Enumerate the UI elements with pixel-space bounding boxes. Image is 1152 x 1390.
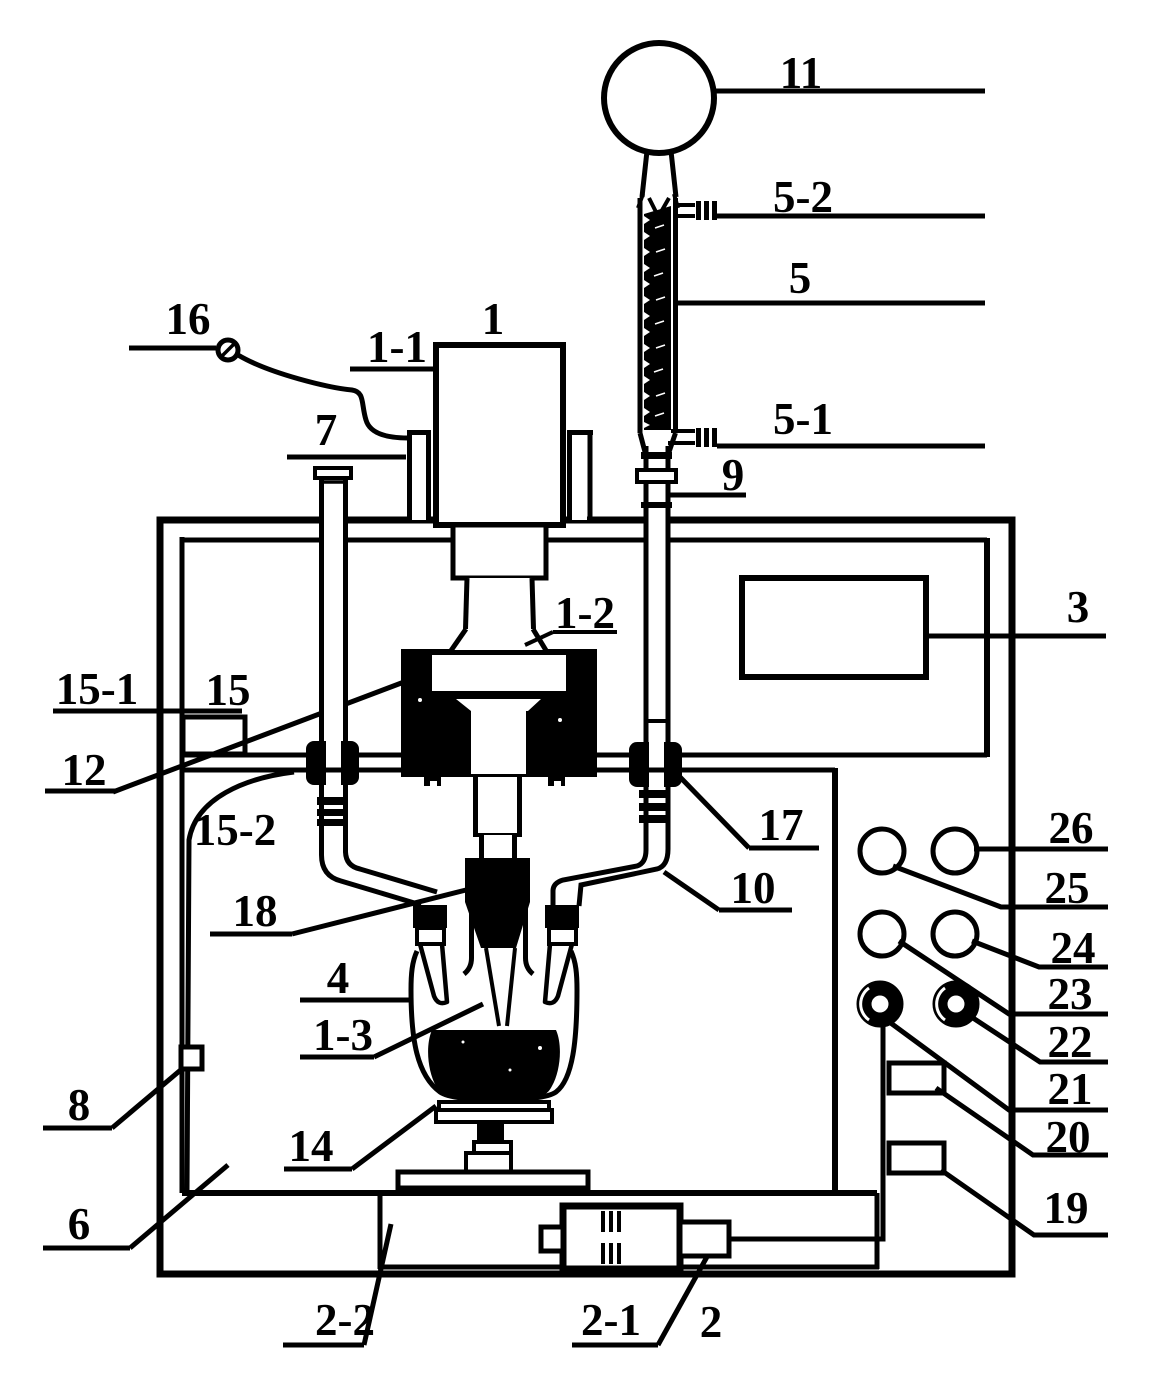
svg-text:4: 4 [327,953,350,1003]
svg-text:15-1: 15-1 [56,664,139,714]
condenser inner vapor funnel [649,198,656,212]
tube 7 left wall [322,477,422,905]
jack base plate [398,1172,588,1188]
button 23 (panel circle row B left) [860,912,904,956]
liquid speckles [538,1046,542,1050]
display compartment top edge [182,538,987,543]
pointer diagonal label 1-2 [525,632,553,645]
pointer diagonal label 2 to motor connector [658,1237,718,1345]
drive motor 2-1 body [563,1206,680,1269]
svg-text:5-1: 5-1 [773,394,833,444]
display unit 3 [742,578,926,677]
wire 16 flexible cable to motor bracket [238,355,408,438]
pointer line label 11 [714,89,985,94]
motor output shaft neck [465,578,534,629]
svg-text:19: 19 [1044,1183,1089,1233]
tube 9 joint band lower [641,502,672,508]
display compartment bottom edge / support rod upper line [182,753,987,758]
tube 9 joint tick above clamp [645,719,669,723]
svg-text:1: 1 [482,294,505,344]
pointer diagonal label 2-2 to pedestal [364,1224,391,1345]
furnace speckles [418,698,422,702]
jack lower block [466,1153,511,1172]
pointer diagonal label 17 to clamp [679,776,749,848]
svg-text:3: 3 [1067,582,1090,632]
svg-text:26: 26 [1049,803,1094,853]
flask left neck dip tube [420,944,447,1003]
svg-text:16: 16 [166,294,211,344]
condenser top shoulder flares [638,194,643,208]
tube 9/10 body (right vertical tube from condenser to flask) [551,446,670,905]
jack platform 14 top plate [439,1102,549,1110]
button 26 (panel circle row A right) [933,829,977,873]
pointer diagonal label 6 into cabinet [130,1165,228,1248]
underline label 1-1 [350,367,437,372]
flask right neck dip tube [545,944,572,1003]
furnace shaft channel [471,711,526,774]
hose barb 5-1 [696,428,701,447]
svg-text:25: 25 [1045,863,1090,913]
svg-text:15-2: 15-2 [194,805,277,855]
tube 9 joint nut [637,470,676,482]
flask left neck cap band [417,928,444,944]
underline label 15-1 [53,709,242,714]
pointer diagonal label 18 to stirrer bearing [292,890,466,934]
oil pipe 15-2 curved [187,772,294,1190]
pedestal box 2-2 bottom edge [378,1265,879,1270]
motor bracket 7 right column [572,435,587,520]
motor winding bars lower [601,1243,605,1264]
svg-text:9: 9 [722,450,745,500]
coil zigzag left edge notches [644,216,650,428]
pointer line label 20 [936,1088,1108,1155]
pedestal box 2-2 right edge [875,1193,880,1269]
svg-text:14: 14 [289,1121,334,1171]
stirrer shaft lower segment [479,835,517,858]
sensor box 8 on inner wall [181,1047,202,1069]
three-neck flask 4 body [411,951,577,1100]
coil speckles [654,225,665,416]
jack step [474,1142,511,1153]
switch plate 19 [889,1143,944,1173]
svg-text:1-2: 1-2 [555,588,615,638]
socket 22 (ring connector right) [937,988,972,1020]
svg-text:20: 20 [1046,1112,1091,1162]
pointer line label 9 [669,493,746,498]
svg-text:7: 7 [315,405,338,455]
button 24 (panel circle row B right) [933,912,977,956]
svg-text:2: 2 [700,1297,723,1347]
furnace white flange cavity 1-2 seat [432,655,566,691]
pointer line label 5-1 [717,444,985,449]
underline label 18 [210,932,292,937]
underline label 14 [284,1167,352,1172]
pointer line label 19 [941,1170,1108,1235]
clamp 17 on tube 9 (black jaws) [629,742,682,787]
motor bracket 7 left column [412,435,426,520]
svg-text:1-1: 1-1 [367,322,427,372]
svg-text:2-2: 2-2 [315,1295,375,1345]
heating furnace 12 (black block) [401,649,597,777]
svg-text:18: 18 [233,886,278,936]
condenser bottom taper [640,433,645,452]
pointer line label 22 [970,1016,1108,1062]
tube 9 joint band upper [641,452,672,459]
underline label 1-3 [300,1055,374,1060]
power cable from socket 21 to motor 2 [729,1026,883,1239]
flask compartment right edge [832,768,838,1193]
flask right neck cap band [549,928,576,944]
underline label 2-2 [283,1343,364,1348]
jack platform main plate [436,1110,552,1122]
flask compartment bottom shelf [182,1190,877,1196]
controller box 15 [183,717,245,754]
underline label 8 [43,1126,112,1131]
pointer line label 26 [974,847,1108,852]
tube 7 top cap [315,468,351,478]
svg-text:24: 24 [1051,923,1096,973]
underline label 10 [719,908,792,913]
underline label 17 [749,846,819,851]
flask right neck collar (black) [545,905,579,928]
wire 16 plug loop [218,340,238,360]
pointer diagonal label 14 to jack platform [352,1106,436,1169]
underline label 4 [300,998,413,1003]
svg-text:21: 21 [1048,1064,1093,1114]
flask left neck collar (black) [413,905,447,928]
button 25 (panel circle row A left) [860,829,904,873]
tube 9 right wall [579,446,668,906]
motor lower housing [453,525,546,578]
pointer line label 23 [899,941,1108,1014]
outer enclosure box 6 [160,520,1012,1274]
stirring paddle shaft (tapered white) [486,948,515,1026]
display compartment right edge [984,538,990,757]
stirring motor 1 [436,345,563,525]
svg-text:22: 22 [1048,1017,1093,1067]
motor left shaft stub [541,1227,563,1251]
underline label 2-1 [572,1343,658,1348]
inner left wall [180,537,185,1193]
svg-text:23: 23 [1048,969,1093,1019]
underline label 7 [287,455,406,460]
motor connector box 2 [680,1222,729,1256]
furnace left foot [424,777,441,786]
condenser 5 outer tube walls [638,198,643,433]
condenser coil (dark column) [644,206,671,430]
pointer line label 24 [972,941,1108,967]
condenser outlet arm 5-2 [676,203,695,207]
pointer line label 5-2 [717,214,985,219]
svg-text:2-1: 2-1 [581,1295,641,1345]
svg-text:6: 6 [68,1199,91,1249]
pointer diagonal label 8 [112,1068,183,1128]
svg-text:5-2: 5-2 [773,172,833,222]
flask center neck [464,890,472,974]
switch plate 20 [889,1063,944,1093]
pointer line label 25 [893,866,1108,907]
pointer diagonal label 10 to bent tube [664,872,719,910]
stirrer bearing 18 (black tapered head) [465,858,530,948]
pointer line for label 3 [929,634,1106,639]
hose ribs on tube 7 below clamp [317,797,344,805]
svg-text:17: 17 [759,800,804,850]
jack screw (black) [477,1122,504,1142]
furnace funnel cavity [456,699,541,711]
svg-text:10: 10 [731,863,776,913]
svg-text:11: 11 [780,48,823,98]
reaction liquid 1-3 (black fill) [428,1030,560,1101]
balloon neck [642,151,647,197]
flask compartment top edge / support rod lower line (over tubes) [182,768,835,773]
pointer diagonal label 1-3 to stirring paddle tip [374,1004,483,1057]
tube 7 right wall [346,477,438,892]
svg-text:8: 8 [68,1080,91,1130]
underline label 1-2 [553,630,617,634]
condenser inlet arm 5-1 [671,429,695,433]
socket 21 (ring connector left) [861,988,896,1020]
hose barb 5-2 [696,201,701,220]
pointer line label 5 [677,301,985,306]
balloon 11 [604,43,714,153]
svg-text:1-3: 1-3 [313,1010,373,1060]
svg-text:5: 5 [789,253,812,303]
wire 16 lead line [129,346,216,351]
pedestal box 2-2 left edge [378,1193,383,1269]
tube 7 body (left vertical tube bending to flask) [321,477,438,906]
stirrer shaft coupler below furnace [473,777,522,835]
svg-text:15: 15 [206,665,251,715]
shaft cone 1-2 [451,629,546,650]
underline label 6 [43,1246,130,1251]
furnace right foot [548,777,565,786]
hose ribs 10 on tube 9 below clamp [639,790,666,798]
clamp on tube 7 (black jaws) [306,741,359,785]
underline label 12 [45,789,115,794]
pointer diagonal label 12 to heating furnace [113,682,404,792]
tube 9 left wall [553,446,646,906]
pointer line label 21 [888,1021,1108,1110]
svg-text:12: 12 [62,745,107,795]
motor winding bars upper [601,1211,605,1232]
